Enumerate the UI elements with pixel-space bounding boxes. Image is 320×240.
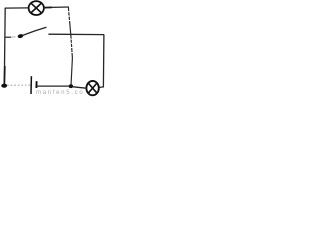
wire: middle vertical [68,7,72,86]
switch S1 pivot dot [17,34,24,39]
battery B1 short plate [35,81,37,88]
lamp L2 circle [86,81,98,95]
switch S1 left stub faint continuation [11,36,16,38]
wire: right vertical [102,34,105,87]
switch S1 lever arm (open) [23,27,46,35]
wire: middle vertical scan nicks [68,11,75,53]
wire: left vertical bus [3,8,6,85]
switch S1 left stub [5,36,11,38]
lamp L1 cross [31,3,42,13]
wire: battery to node A [37,85,69,87]
battery B1 long plate [30,76,32,94]
lamp L2 left lead [73,87,86,88]
lamp L2 cross [88,83,97,93]
wire: middle horizontal to right [48,33,104,35]
wire: top horizontal right segment [51,6,69,8]
wire: lamp L1 right lead (thick) [44,6,52,8]
junction node B dot [1,84,7,88]
wire: node B to battery (faint dashed) [7,84,31,86]
lamp L2 right lead [99,86,104,89]
lamp L1 circle [29,1,44,15]
junction node A dot [69,84,73,88]
watermark text manfen5.com [36,90,84,96]
wire: left vertical thick lower part [3,66,5,84]
wire: top horizontal left segment [5,7,29,9]
